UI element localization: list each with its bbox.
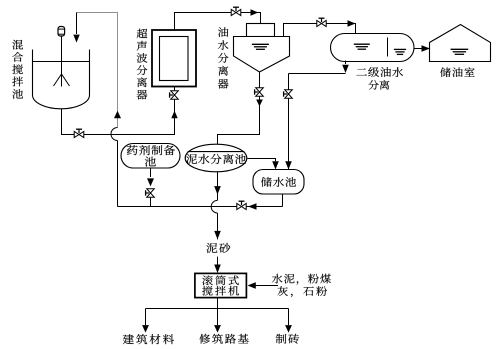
label: drum mixer line2 (jiao ban ji) bbox=[202, 286, 239, 296]
secondary oil-water separator vessel bbox=[331, 34, 415, 62]
chemical preparation tank stadium vessel bbox=[121, 144, 180, 169]
label: chemical preparation line2 (chi) bbox=[145, 157, 156, 167]
sludge line upper segment bbox=[217, 172, 219, 201]
label: chemical preparation line1 (yao ji zhi bei) bbox=[127, 145, 175, 155]
label: secondary oil-water line1 bbox=[356, 67, 403, 77]
arrow to road base bbox=[214, 325, 221, 333]
flow arrow up into ultrasonic separator bbox=[171, 111, 177, 119]
feed drop into mixing tank bbox=[76, 13, 78, 35]
valve under ultrasonic separator bbox=[170, 91, 179, 100]
valve under chemical tank bbox=[146, 189, 155, 198]
label: secondary oil-water line2 (fen li) bbox=[368, 80, 389, 89]
mixer bottom outlet bbox=[217, 298, 219, 309]
water pool outlet drop bbox=[282, 194, 284, 207]
recycled water return line bbox=[118, 206, 283, 208]
label: oil storage room (chu you shi) bbox=[440, 67, 474, 77]
water outlet stub from secondary separator bbox=[345, 61, 347, 65]
branch to brick bbox=[288, 309, 290, 326]
flow arrow up on recycle riser bbox=[114, 111, 121, 119]
flow arrow above mud-sand label bbox=[214, 231, 221, 240]
branch to road base bbox=[217, 309, 219, 326]
sludge line middle segment bbox=[217, 213, 219, 239]
flow arrow on sludge line above crossing bbox=[214, 186, 221, 195]
flow arrow into water storage pool (left) bbox=[272, 161, 279, 169]
drum mixer box bbox=[195, 273, 247, 297]
recycle riser + top rail (grey) bbox=[77, 13, 118, 128]
arrow to brick making bbox=[285, 325, 292, 333]
stirrer shaft bbox=[61, 37, 63, 87]
feed arrow into mixing tank bbox=[73, 35, 79, 43]
flow arrow into secondary separator bbox=[348, 20, 356, 26]
tank bottom outlet pipe bbox=[62, 87, 175, 135]
mixing tank liquid level line bbox=[33, 61, 90, 63]
stirrer impeller blades bbox=[54, 74, 70, 86]
ultrasonic separator inner chamber bbox=[160, 37, 189, 81]
label: ultrasonic separator (chao sheng bo fen li qi) bbox=[137, 29, 148, 100]
pipe secondary separator to oil store bbox=[414, 48, 422, 50]
valve on return line bbox=[237, 201, 246, 209]
oil-water separator body with funnel bottom bbox=[234, 37, 290, 73]
additive feed line into mixer bbox=[256, 285, 279, 287]
label: road base (xiu zhu lu ji) bbox=[199, 334, 248, 344]
label: cement fly-ash line1 (shui ni, fen mei) bbox=[272, 274, 331, 285]
valve on ultrasonic outlet rail bbox=[231, 7, 241, 15]
divider plate in secondary separator bbox=[387, 38, 389, 57]
valve on tank outlet bbox=[74, 129, 84, 137]
flow arrow into water storage pool (right) bbox=[285, 161, 292, 169]
mixing tank stirrer motor bbox=[58, 27, 65, 37]
label: cement fly-ash line2 (hui, shi fen) bbox=[277, 286, 327, 297]
label: water storage pool (chu shui chi) bbox=[261, 177, 296, 187]
flow arrow down on funnel outlet bbox=[256, 100, 263, 107]
label: mud-water separation tank (ni shui fen li chi) bbox=[186, 154, 246, 164]
mud-water separation tank chord line bbox=[188, 151, 245, 153]
oil storage room pentagon bbox=[430, 25, 491, 62]
liquid level left in secondary separator bbox=[354, 44, 370, 49]
label: drum mixer line1 (gun tong shi) bbox=[202, 275, 239, 285]
sludge pipe from separator funnel to mud-water tank bbox=[218, 72, 260, 145]
water storage pool rounded vessel bbox=[253, 170, 304, 195]
arrow to building material bbox=[142, 325, 149, 333]
label: brick making (zhi zhuan) bbox=[276, 334, 299, 344]
pipe mud-water tank to water pool bbox=[248, 159, 276, 162]
flow arrow down from chemical tank bbox=[147, 178, 154, 186]
label: mixing tank (hun he jiao ban chi) bbox=[12, 40, 23, 99]
flow arrow of additive feed bbox=[248, 282, 256, 289]
branch to building material bbox=[145, 309, 147, 326]
label: building material (jian zhu cai liao) bbox=[123, 334, 174, 344]
ultrasonic separator outer shell bbox=[152, 30, 196, 87]
pipe from ultrasonic top to oil-water separator bbox=[175, 13, 261, 31]
valve on oil outlet rail bbox=[317, 18, 326, 26]
flow arrow left on return line bbox=[248, 203, 257, 209]
liquid level in oil store bbox=[451, 49, 469, 54]
sludge line hop arc over return line bbox=[211, 200, 217, 213]
label: mud-sand (ni sha) bbox=[206, 243, 230, 253]
liquid level symbol in oil-water separator bbox=[252, 44, 269, 49]
flow arrow into oil store bbox=[422, 45, 431, 52]
liquid level right in secondary separator bbox=[394, 49, 406, 54]
flow arrow into oil-water separator bbox=[251, 9, 259, 15]
water return pipe to storage pool bbox=[289, 74, 346, 171]
valve on water return pipe bbox=[284, 90, 293, 99]
oil outlet rail to secondary separator bbox=[284, 24, 356, 37]
flow arrow into drum mixer bbox=[214, 265, 221, 274]
flow arrow down from secondary separator bbox=[342, 65, 349, 73]
chemical tank outlet pipe bbox=[150, 168, 152, 207]
recycle riser lower segment bbox=[117, 141, 119, 207]
recycle riser hop arc over tank outlet line bbox=[111, 128, 118, 141]
oil-water separator top chamber bbox=[247, 24, 275, 37]
mixing tank vessel walls and bottom bbox=[33, 50, 90, 109]
label: oil-water separator (you shui fen li qi) bbox=[218, 27, 229, 88]
mud-water separation tank oval vessel bbox=[185, 144, 247, 172]
valve under separator funnel bbox=[255, 88, 264, 97]
distribution rail bbox=[146, 308, 289, 310]
sludge line lower segment bbox=[217, 257, 219, 265]
